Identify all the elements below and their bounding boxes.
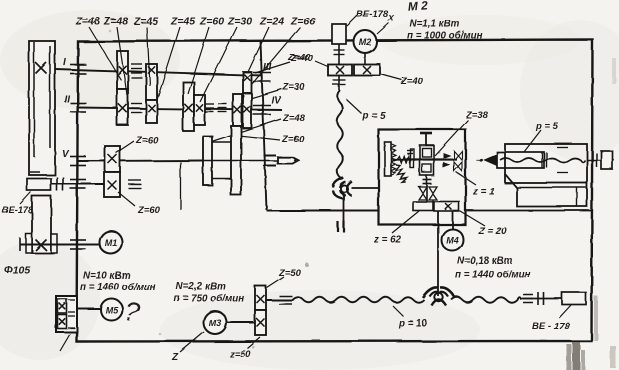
svg-text:Z: Z [171, 352, 179, 363]
bearing shaft II at frame [70, 103, 86, 112]
tailstock quill [497, 152, 544, 168]
label BE-178 right [532, 321, 570, 332]
bearing shaft I at frame [70, 65, 86, 74]
leader p=5 top [346, 99, 362, 114]
svg-text:М1: М1 [105, 238, 118, 248]
label shaft V [62, 149, 70, 160]
tailstock dash marks [557, 148, 568, 173]
shaft to BE-178 right [521, 298, 562, 300]
svg-text:М3: М3 [209, 318, 222, 328]
motor M2 text [359, 37, 372, 47]
svg-text:Z=50: Z=50 [278, 268, 302, 279]
leader Z=20 [460, 211, 485, 226]
leader Z=40 right [380, 74, 402, 80]
svg-text:BE-178: BE-178 [356, 9, 389, 20]
tailstock centre [476, 155, 497, 166]
svg-text:п = 750 об/мин: п = 750 об/мин [174, 294, 244, 305]
svg-text:Z=66: Z=66 [290, 16, 315, 28]
label shaft IV [271, 95, 282, 106]
tailstock base inner line [576, 188, 578, 206]
leader Z=48 right [213, 119, 281, 141]
label gear Z=66 #8 [290, 16, 315, 28]
svg-text:III: III [263, 62, 272, 73]
label Z=60 on shaft V [135, 135, 159, 146]
svg-text:N=0,18 кВт: N=0,18 кВт [457, 256, 513, 267]
label Z leader of M3 [171, 352, 179, 363]
leader Z=40 top right [255, 62, 290, 73]
label X mark [387, 13, 395, 23]
motor M3 circle [204, 311, 227, 334]
svg-text:p = 5: p = 5 [362, 111, 386, 122]
bearing shaft IV at wall [253, 106, 271, 115]
svg-text:Z=45: Z=45 [170, 16, 195, 28]
worm wheel on lead screw [423, 287, 455, 305]
tailstock screw nut marks [542, 153, 547, 168]
worm shaft z=1 in gearbox [392, 158, 457, 160]
lead screw p=10 left part [292, 297, 424, 303]
gear tall block lower on shaft IV [243, 93, 252, 128]
wire gearbox to tailstock [466, 210, 592, 212]
label Z=30 right [282, 82, 306, 93]
label gear Z=60 #5 [199, 16, 224, 28]
leader line Z=48 #1 [89, 27, 121, 80]
shaft VI to tachogenerator [46, 183, 104, 185]
spring left [397, 149, 415, 168]
leader line Z=66 #8 [252, 27, 300, 84]
svg-text:I: I [63, 57, 66, 68]
leader line Z=24 #7 [248, 27, 269, 72]
label z=62 [373, 235, 402, 246]
label n=1000 [407, 31, 483, 42]
shaft V [78, 160, 203, 163]
pinion top link [421, 134, 433, 146]
question mark [122, 296, 142, 328]
leader Z=50 top [267, 277, 284, 288]
spline marks shaft II [131, 104, 142, 113]
shaft out of z=50 [266, 299, 293, 301]
link gearbox to worm wheel [437, 211, 439, 296]
pinion Z=38 assembly [420, 146, 434, 176]
label BE-178 top [356, 9, 389, 20]
coupling on shaft VI [57, 177, 63, 191]
gear z=50 upper [255, 286, 266, 310]
coupling marks right [523, 292, 544, 305]
drum cylinder [212, 142, 231, 179]
svg-text:p = 10: p = 10 [398, 319, 428, 330]
spline marks lower gear [128, 180, 141, 188]
motor M1 text [105, 238, 118, 248]
svg-text:BE-178: BE-178 [2, 205, 34, 215]
svg-text:п = 1440 об/мин: п = 1440 об/мин [455, 270, 531, 281]
motor M5 circle [101, 299, 123, 321]
label gear Z=45 #3 [133, 16, 158, 28]
gear block lower2 on shaft II [146, 100, 157, 123]
spline marks shaft II right [205, 104, 227, 112]
svg-text:Z=30: Z=30 [282, 82, 306, 93]
svg-text:N=10 кВт: N=10 кВт [83, 271, 130, 282]
label z=50 bottom [229, 349, 252, 360]
label N=1,1 kW [410, 19, 460, 30]
shaft IV stub [242, 109, 282, 112]
worm wheel on vertical shaft [333, 178, 352, 199]
leader line Z=30 #6 [200, 27, 237, 102]
link below gear Z=40 [333, 76, 346, 91]
leader BE-178 top [347, 16, 357, 26]
label M 2 handwritten [407, 0, 428, 14]
pulley D105 on motor M1 shaft [26, 196, 57, 253]
label Z=60 right [281, 134, 305, 145]
gear Z=40 right [354, 65, 380, 76]
label gear Z=48 #2 [103, 16, 128, 28]
leader X mark [377, 23, 389, 34]
label shaft I [63, 57, 66, 68]
label p=5 right [535, 121, 559, 132]
label N=0,18 kW [457, 256, 513, 267]
shaft of motor M1 [20, 244, 100, 246]
label BE-178 left [2, 205, 34, 215]
svg-text:Z=30: Z=30 [227, 16, 252, 28]
leader Z to M3 [180, 332, 204, 352]
leader Z=60 right [234, 135, 280, 140]
label n=750 [174, 294, 244, 305]
worm reduction box of M5 [56, 296, 77, 332]
scan speckles [109, 30, 309, 349]
svg-text:М4: М4 [446, 236, 459, 246]
svg-text:Z=60: Z=60 [199, 16, 224, 28]
tachogenerator BE-178 left [27, 179, 51, 191]
shaft M3 to gear [226, 322, 255, 324]
svg-text:п = 1460 об/мин: п = 1460 об/мин [80, 282, 156, 293]
svg-text:Z = 20: Z = 20 [478, 227, 508, 238]
motor M4 text [446, 236, 459, 246]
svg-text:z=50: z=50 [229, 349, 252, 360]
svg-text:Z=40: Z=40 [287, 52, 311, 63]
gear z=50 lower [255, 310, 266, 335]
gear Z=40 left [328, 65, 352, 76]
motor M5 text [105, 305, 118, 315]
shaft worm wheel to gearbox [351, 187, 379, 189]
label Z=38 [465, 110, 489, 121]
svg-text:Z=48: Z=48 [282, 113, 306, 124]
label gear Z=48 #1 [75, 16, 100, 28]
bearing shaft V at frame [70, 157, 86, 166]
label Z=48 right [282, 113, 306, 124]
svg-text:Z=40: Z=40 [400, 76, 424, 87]
motor M1 circle [100, 231, 123, 254]
shaft M5 [77, 308, 100, 310]
vertical worm shaft p=5 [337, 90, 343, 179]
leader line Z=48 #2 [117, 27, 127, 95]
label Z=40 left [287, 52, 311, 63]
leader BE-178 right [559, 305, 571, 318]
coupling ticks below pinion [423, 180, 432, 184]
handwheel shaft [587, 159, 614, 161]
svg-text:N=1,1 кВт: N=1,1 кВт [410, 19, 460, 30]
label p=10 [398, 319, 428, 330]
label Z=40 top right [290, 53, 314, 64]
frame border of machine bed [77, 40, 593, 342]
shaft II [78, 108, 262, 111]
arrow marks right of pinion [443, 153, 451, 169]
headstock right wall [261, 41, 267, 210]
spline marks shaft I [131, 64, 142, 78]
leader Z=60 shaft V [116, 141, 134, 153]
label N=2,2 kW [176, 282, 226, 293]
label gear Z=45 #4 [170, 16, 195, 28]
drum shaft with arrow [203, 160, 281, 162]
shaft I [55, 69, 262, 76]
tailstock screw p=5 [500, 158, 585, 162]
lever line [180, 162, 182, 210]
drum left disc [203, 136, 212, 185]
label p=5 top [362, 111, 386, 122]
label Z=40 right [400, 76, 424, 87]
svg-text:Z=60: Z=60 [137, 205, 161, 216]
rack teeth [391, 144, 396, 176]
svg-text:z = 62: z = 62 [373, 235, 402, 246]
rack bar [385, 142, 392, 176]
label n=1460 [80, 282, 156, 293]
shaft below worm wheel [343, 193, 345, 222]
bevel pair below pinion [419, 187, 437, 200]
leader line Z=45 #3 [147, 27, 150, 86]
label gear Z=24 #7 [259, 16, 284, 28]
leader z=1 [456, 172, 476, 185]
gear Z=60 lower [104, 172, 120, 197]
gear Z=60 on shaft II [183, 82, 194, 131]
svg-text:М2: М2 [359, 37, 372, 47]
label gear Z=30 #6 [227, 16, 252, 28]
label F105 [4, 264, 30, 276]
svg-text:Ф105: Ф105 [4, 264, 30, 276]
label N=10 kW [83, 271, 130, 282]
label z=1 [472, 187, 495, 198]
bearing shaft VI at frame [70, 180, 86, 189]
link BE-178 to gear [334, 44, 345, 65]
wire from wall corner to gearbox [267, 210, 380, 212]
scan smudge bottom right [566, 58, 616, 370]
arrow tool holder [278, 157, 299, 163]
svg-text:p = 5: p = 5 [535, 121, 559, 132]
leader Z=30 right [252, 89, 282, 98]
gear on shaft IV [233, 94, 242, 126]
leader p=5 right [524, 130, 541, 152]
leader Z=60 lower [118, 192, 135, 206]
handwheel tick [596, 153, 598, 167]
svg-text:N=2,2 кВт: N=2,2 кВт [176, 282, 226, 293]
leader worm box [60, 334, 70, 351]
svg-text:Z=48: Z=48 [75, 16, 100, 28]
tachogenerator BE-178 top [332, 24, 346, 44]
belt cone pulley P1 on shaft I [29, 41, 55, 175]
svg-text:Z=45: Z=45 [133, 16, 158, 28]
svg-text:М5: М5 [105, 305, 118, 315]
label n=1440 [455, 270, 531, 281]
svg-text:Z=60: Z=60 [135, 135, 159, 146]
leader BE-178 left [20, 192, 31, 204]
svg-text:М 2: М 2 [407, 0, 428, 14]
gear Z=45 block upper on shaft I [146, 64, 157, 100]
svg-text:z = 1: z = 1 [472, 187, 495, 198]
gear Z=30 on shaft II [194, 95, 205, 125]
drum right disc [231, 126, 241, 195]
label Z=20 [478, 227, 508, 238]
svg-text:Z=60: Z=60 [281, 134, 305, 145]
gear Z=20 in gearbox [434, 202, 459, 212]
link gearbox to M4 [452, 211, 454, 229]
label Z=60 lower [137, 205, 161, 216]
leader p=10 [393, 306, 404, 317]
gear Z=24/Z=66 tall block upper on shaft III [243, 72, 252, 93]
link pinion to bottom gears [427, 176, 433, 203]
handwheel [601, 151, 613, 169]
leader z=50 bottom [247, 337, 260, 348]
tailstock base [505, 174, 587, 207]
motor M2 circle [354, 30, 377, 53]
coupling marks after z=50 [279, 296, 292, 304]
leader Z=38 [435, 120, 468, 156]
bearing shaft III at wall [253, 73, 271, 82]
gear Z=60 on shaft V [105, 146, 120, 172]
leader z=62 [392, 211, 419, 233]
motor M3 text [209, 318, 222, 328]
apron gearbox housing [379, 130, 466, 225]
svg-text:Z=38: Z=38 [465, 110, 489, 121]
tailstock body [505, 144, 587, 183]
gear block lower on shaft II [117, 89, 128, 125]
svg-text:п = 1000 об/мин: п = 1000 об/мин [407, 31, 483, 42]
bearing M1 shaft at frame [70, 240, 86, 249]
svg-text:II: II [64, 94, 70, 105]
label shaft III [263, 62, 272, 73]
bearing drum shaft at wall [264, 156, 277, 166]
svg-text:IV: IV [271, 95, 282, 106]
leader line Z=60 #5 [188, 27, 209, 94]
bearing M1 shaft left end [19, 238, 21, 251]
leader Z=40 left [315, 61, 329, 67]
spring diag [393, 163, 408, 183]
lead screw p=10 right part [451, 297, 521, 303]
label Z=50 top [278, 268, 302, 279]
clutch triangles right [454, 151, 462, 171]
gear Z=48 block upper on shaft I [117, 51, 128, 89]
gear z=62 in gearbox [413, 202, 433, 211]
tachogenerator BE-178 right [562, 293, 586, 305]
svg-text:BE - 178: BE - 178 [532, 321, 570, 332]
motor M4 circle [442, 229, 464, 251]
svg-text:Z=24: Z=24 [259, 16, 284, 28]
label shaft II [64, 94, 70, 105]
link M2 to gear [364, 53, 366, 65]
svg-text:Z=48: Z=48 [103, 16, 128, 28]
leader line Z=45 #4 [157, 27, 180, 100]
end marks below worm wheel [338, 221, 344, 233]
